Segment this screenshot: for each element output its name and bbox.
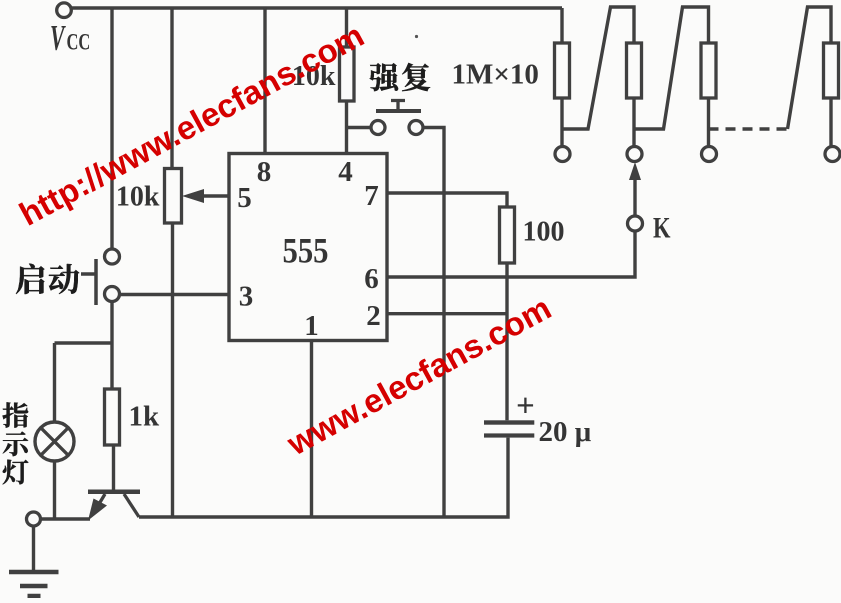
wire collector bottom rail bbox=[139, 438, 508, 517]
label 启动 bbox=[16, 264, 44, 294]
terminal circle #1 bbox=[555, 147, 570, 162]
wire button bottom junction bbox=[55, 302, 113, 423]
label 强复 bbox=[370, 63, 399, 91]
ground symbol bbox=[32, 526, 35, 570]
svg-text:20 μ: 20 μ bbox=[539, 416, 592, 448]
Vcc terminal bbox=[57, 3, 72, 18]
wire pin1 down bbox=[310, 341, 313, 517]
switch K terminal bbox=[628, 216, 643, 231]
resistor 1k bbox=[105, 389, 120, 445]
wire pin7 bbox=[387, 193, 507, 207]
wire resistor #1 bottom bbox=[560, 98, 563, 146]
lamp indicator bbox=[35, 422, 74, 461]
svg-text:+: + bbox=[516, 389, 535, 425]
wire R3-R4 link bbox=[788, 7, 832, 129]
svg-text:K: K bbox=[653, 210, 671, 244]
wire 100 bottom to cap bbox=[505, 263, 508, 420]
svg-text:CC: CC bbox=[67, 30, 91, 55]
resistor 1M #1 bbox=[555, 43, 570, 98]
potentiometer 10k bbox=[165, 169, 182, 224]
wire pin8 drop bbox=[263, 8, 266, 154]
wire resistor #2 bottom bbox=[632, 98, 635, 146]
ground terminal circle bbox=[27, 512, 41, 526]
pushbutton 强复 bbox=[391, 101, 405, 110]
resistor 1M #2 bbox=[627, 43, 642, 98]
wire 10k top resistor drop bbox=[345, 8, 348, 47]
svg-text:6: 6 bbox=[364, 263, 379, 295]
scan dot artifact bbox=[415, 35, 418, 38]
svg-text:8: 8 bbox=[257, 156, 272, 188]
wire button left bbox=[347, 126, 372, 129]
label 指示灯 bbox=[3, 402, 29, 427]
terminal circle #2 bbox=[627, 147, 642, 162]
wire K to pin6 bbox=[387, 231, 635, 277]
wire pot top drop bbox=[170, 8, 173, 169]
svg-text:2: 2 bbox=[366, 300, 381, 332]
wire pin5 with wiper arrow bbox=[202, 194, 229, 197]
wire R2-R3 link bbox=[634, 7, 709, 129]
wire button right down bbox=[423, 128, 444, 517]
capacitor 20u bbox=[484, 420, 534, 424]
svg-text:3: 3 bbox=[239, 281, 254, 313]
resistor 1M #3 bbox=[701, 43, 716, 98]
wire lamp bottom bbox=[53, 461, 56, 520]
wire start-button drop bbox=[110, 8, 113, 249]
resistor 1M #4 bbox=[824, 43, 839, 98]
transistor Q1 bbox=[112, 445, 115, 490]
svg-text:1k: 1k bbox=[129, 401, 161, 433]
svg-text:5: 5 bbox=[237, 182, 252, 214]
svg-text:1M×10: 1M×10 bbox=[452, 59, 539, 91]
svg-text:1: 1 bbox=[304, 310, 319, 342]
resistor 10k top bbox=[340, 47, 355, 101]
wire R1-R2 link bbox=[562, 7, 634, 129]
wire pot bottom bbox=[171, 223, 174, 517]
wire resistor #4 bottom bbox=[829, 98, 832, 146]
wire pin3 bbox=[120, 293, 230, 296]
svg-text:4: 4 bbox=[338, 156, 353, 188]
wire 10k bottom to pin4 bbox=[345, 101, 348, 154]
resistor 100 bbox=[500, 207, 515, 263]
wire top rail bbox=[72, 6, 563, 9]
svg-text:7: 7 bbox=[364, 180, 379, 212]
wire pin2 bbox=[387, 312, 507, 315]
terminal circle #4 bbox=[825, 147, 840, 162]
svg-text:V: V bbox=[50, 19, 66, 58]
terminal circle #3 bbox=[702, 147, 717, 162]
svg-text:100: 100 bbox=[523, 217, 565, 248]
switch K wiper arrow bbox=[633, 176, 636, 216]
pushbutton 启动 bbox=[81, 259, 96, 305]
svg-text:555: 555 bbox=[282, 231, 328, 271]
op IC 555 box bbox=[229, 154, 387, 341]
wire emitter rail bbox=[41, 517, 91, 520]
svg-text:10k: 10k bbox=[116, 182, 160, 213]
wire R1 top stub bbox=[560, 8, 563, 43]
wire resistor #3 bottom bbox=[707, 98, 710, 146]
wire R3 dashed link bbox=[709, 127, 788, 130]
